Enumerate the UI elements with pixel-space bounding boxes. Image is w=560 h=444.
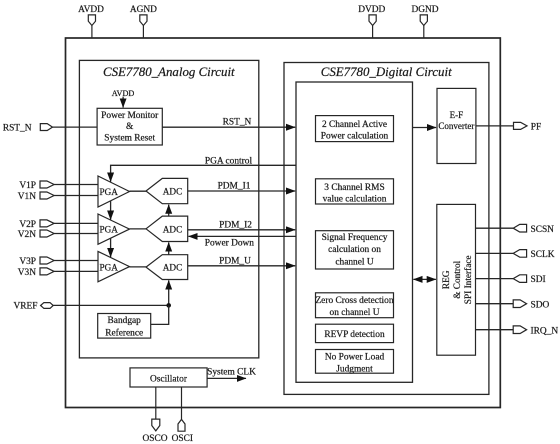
pin SCSN (right, input): [513, 224, 526, 232]
svg-text:calculation on: calculation on: [328, 245, 381, 255]
svg-text:V1N: V1N: [18, 192, 36, 202]
wire V1P input: [54, 184, 98, 186]
pin V2N (left): [40, 230, 54, 237]
converter ADC3: [146, 255, 188, 280]
block: No Power Load Judgment: [316, 350, 394, 374]
svg-text:ADC: ADC: [163, 187, 182, 197]
pin OSCI (bottom, input): [178, 387, 185, 431]
block: Power Monitor & System Reset: [97, 108, 162, 145]
svg-text:OSCO: OSCO: [142, 434, 167, 444]
wire container to SPI bidirectional: [413, 278, 436, 280]
wire E-F Converter to PF pin: [476, 125, 514, 127]
svg-text:V3N: V3N: [18, 268, 36, 278]
pin VREF (left, bidirectional): [41, 303, 54, 309]
svg-text:PDM_I1: PDM_I1: [218, 182, 251, 192]
svg-text:ADC: ADC: [163, 224, 182, 234]
wire VREF pin to junction: [53, 304, 169, 306]
wire PDM_I1 ADC1 to container: [188, 190, 296, 192]
wire Power Down container to ADC2: [189, 235, 297, 237]
text block No Power Load Judgment: [325, 353, 385, 375]
analog circuit block box: [79, 60, 258, 358]
wire AVDD to Power Monitor: [122, 97, 124, 108]
svg-text:Zero Cross detection: Zero Cross detection: [315, 296, 393, 306]
svg-text:Power calculation: Power calculation: [321, 131, 389, 141]
wire V2N input: [54, 233, 98, 235]
wire SPI to IRQ_N pin: [476, 329, 514, 331]
svg-text:& Control: & Control: [453, 260, 463, 298]
svg-text:SDI: SDI: [531, 275, 546, 285]
svg-text:AVDD: AVDD: [78, 5, 104, 15]
svg-text:V1P: V1P: [19, 181, 36, 191]
outer chip boundary box: [66, 38, 501, 408]
svg-text:DGND: DGND: [411, 5, 438, 15]
text block SPI Interface & Control REG (rotated): [442, 255, 474, 304]
wire PGA3 to ADC3: [130, 266, 147, 268]
node VREF junction: [166, 303, 171, 308]
block: Zero Cross detection on channel U: [316, 293, 394, 318]
svg-text:Judgment: Judgment: [336, 364, 373, 374]
calculation container box: [296, 82, 413, 382]
pin V3P (left): [40, 257, 54, 264]
svg-text:REVP detection: REVP detection: [324, 330, 385, 340]
wire PGA2 to ADC2: [130, 228, 147, 230]
svg-text:PGA control: PGA control: [205, 157, 253, 167]
pin V2P (left): [40, 220, 54, 227]
svg-text:SCSN: SCSN: [531, 225, 555, 235]
svg-text:PGA: PGA: [100, 262, 119, 272]
block: 3 Channel RMS value calculation: [316, 179, 394, 204]
svg-text:Power Monitor: Power Monitor: [101, 111, 159, 121]
svg-text:Power Down: Power Down: [205, 238, 255, 248]
wire PGA1 to PGA2 gain chain: [110, 201, 112, 220]
svg-text:OSCI: OSCI: [172, 434, 193, 444]
svg-text:SCLK: SCLK: [531, 250, 555, 260]
pin SDI (right, input): [513, 275, 526, 283]
svg-text:REG: REG: [442, 270, 452, 289]
wire V2P input: [54, 222, 98, 224]
wire RST_N pin to Power Monitor: [53, 126, 98, 128]
svg-text:value calculation: value calculation: [323, 194, 387, 204]
text block 3 Channel RMS value calculation: [323, 183, 387, 205]
pin AVDD (top): [88, 15, 95, 38]
block: Signal Frequency calculation on channel U: [316, 231, 394, 269]
svg-text:&: &: [126, 122, 134, 132]
amplifier PGA3: [98, 251, 130, 281]
text block Bandgap Reference: [105, 316, 143, 338]
pin IRQ_N (right, output): [513, 326, 526, 334]
svg-text:on channel U: on channel U: [330, 308, 380, 318]
pin OSCO (bottom, output): [152, 387, 160, 431]
pin DVDD (top): [369, 15, 376, 38]
text block E-F Converter: [438, 110, 474, 131]
wire SPI to SCSN pin: [476, 227, 514, 229]
svg-text:E-F: E-F: [450, 110, 464, 120]
svg-text:No Power Load: No Power Load: [325, 353, 385, 363]
wire System CLK from Oscillator: [207, 377, 246, 379]
svg-text:AVDD: AVDD: [112, 89, 135, 98]
pin DGND (top): [420, 15, 427, 38]
converter ADC2: [146, 216, 188, 241]
svg-text:SPI Interface: SPI Interface: [463, 255, 474, 304]
wire ADC3 to ADC2 reference chain: [168, 242, 170, 254]
pin SCLK (right, input): [513, 250, 526, 258]
svg-text:IRQ_N: IRQ_N: [531, 326, 559, 336]
svg-text:Signal Frequency: Signal Frequency: [322, 233, 388, 243]
svg-text:DVDD: DVDD: [358, 5, 385, 15]
svg-text:V2P: V2P: [19, 220, 36, 230]
digital circuit block box: [284, 63, 489, 395]
svg-text:V3P: V3P: [19, 257, 36, 267]
svg-text:CSE7780_Analog Circuit: CSE7780_Analog Circuit: [103, 65, 235, 79]
svg-text:AGND: AGND: [130, 5, 157, 15]
amplifier PGA2: [98, 214, 130, 244]
svg-text:RST_N: RST_N: [3, 124, 32, 134]
svg-text:PDM_I2: PDM_I2: [219, 221, 252, 231]
text block Zero Cross detection on channel U: [315, 296, 393, 318]
wire V3N input: [54, 270, 98, 272]
wire PGA control horizontal: [111, 165, 296, 181]
wire VREF junction to ADC3: [168, 280, 170, 305]
pin RST_N (left): [40, 124, 52, 131]
svg-text:ADC: ADC: [163, 263, 182, 273]
wire PGA1 to ADC1: [130, 190, 147, 192]
svg-text:System CLK: System CLK: [207, 368, 256, 378]
wire container to E-F Converter: [413, 127, 437, 129]
converter ADC1: [146, 178, 188, 203]
svg-text:2 Channel Active: 2 Channel Active: [322, 120, 387, 130]
pin V1P (left): [40, 181, 54, 188]
block: REVP detection: [316, 324, 394, 342]
svg-text:PGA: PGA: [100, 225, 119, 235]
text block Signal Frequency calculation on channel U: [322, 233, 388, 268]
block: 2 Channel Active Power calculation: [316, 116, 394, 142]
wire SPI to SDO pin: [476, 303, 514, 305]
wire PDM_I2 ADC2 to container: [188, 229, 296, 231]
svg-text:Oscillator: Oscillator: [150, 375, 188, 385]
amplifier PGA1: [98, 176, 130, 207]
pin PF (right): [514, 122, 528, 129]
svg-text:System Reset: System Reset: [104, 134, 155, 144]
svg-text:PDM_U: PDM_U: [219, 256, 251, 266]
wire PDM_U ADC3 to container: [188, 265, 296, 267]
wire V3P input: [54, 260, 98, 262]
svg-text:Converter: Converter: [438, 121, 474, 131]
text block Power Monitor & System Reset: [101, 111, 159, 143]
svg-text:SDO: SDO: [531, 300, 550, 310]
wire ADC2 to ADC1 reference chain: [168, 205, 170, 217]
wire PGA2 to PGA3 gain chain: [110, 238, 112, 257]
svg-text:3 Channel RMS: 3 Channel RMS: [324, 183, 384, 193]
svg-text:CSE7780_Digital Circuit: CSE7780_Digital Circuit: [321, 65, 452, 79]
svg-text:PF: PF: [531, 122, 541, 132]
wire RST_N Power Monitor to digital container: [162, 126, 295, 128]
svg-text:RST_N: RST_N: [223, 118, 252, 128]
pin V1N (left): [40, 192, 54, 199]
svg-text:Bandgap: Bandgap: [108, 316, 142, 326]
pin SDO (right, output): [513, 300, 526, 308]
block: SPI Interface & Control REG: [437, 204, 476, 355]
svg-text:V2N: V2N: [18, 230, 36, 240]
block: Bandgap Reference: [98, 314, 151, 339]
pin AGND (top): [140, 15, 147, 38]
pin V3N (left): [40, 268, 54, 275]
wire SPI to SDI pin: [476, 278, 514, 280]
svg-text:VREF: VREF: [14, 302, 38, 312]
block: Oscillator: [130, 368, 207, 387]
svg-text:Reference: Reference: [105, 327, 143, 338]
svg-text:PGA: PGA: [100, 187, 119, 197]
svg-text:channel U: channel U: [335, 257, 373, 267]
wire Bandgap Reference to VREF junction: [151, 305, 169, 324]
wire V1N input: [54, 195, 98, 197]
block: E-F Converter U-EF: [437, 88, 476, 163]
text block 2 Channel Active Power calculation: [321, 120, 389, 142]
wire SPI to SCLK pin: [476, 252, 514, 254]
